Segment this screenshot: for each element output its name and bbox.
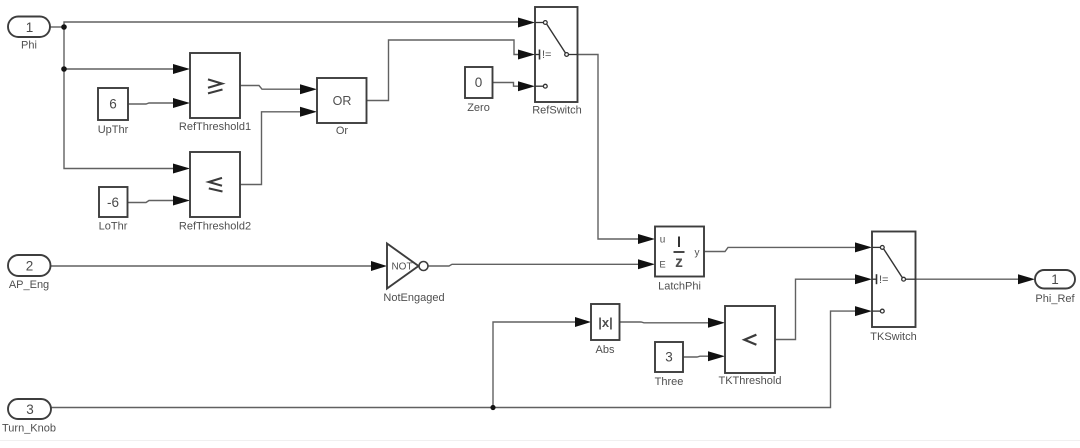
- wire Zero to RefSwitch in3: [493, 83, 523, 87]
- UpThr body: [98, 88, 128, 120]
- svg-text:RefSwitch: RefSwitch: [532, 105, 582, 117]
- svg-text:E: E: [659, 260, 665, 271]
- svg-text:OR: OR: [333, 94, 352, 108]
- RefSwitch pin 1 stub and contact: [535, 22, 543, 24]
- constant Zero value 0: [465, 67, 493, 114]
- svg-text:Turn_Knob: Turn_Knob: [2, 423, 56, 435]
- svg-text:u: u: [660, 235, 666, 246]
- inport 3 Turn_Knob: [2, 399, 56, 435]
- Three body: [655, 342, 683, 372]
- svg-text:TKThreshold: TKThreshold: [719, 375, 782, 387]
- TKSwitch output contact: [902, 277, 906, 281]
- logic NOT gate NotEngaged: [383, 244, 444, 305]
- outport 1 Phi_Ref: [1035, 270, 1076, 305]
- wire TKSwitch to Phi_Ref: [916, 278, 1021, 280]
- svg-text:TKSwitch: TKSwitch: [870, 331, 916, 343]
- TKThreshold body: [725, 306, 775, 373]
- canvas bottom edge: [0, 440, 1080, 441]
- svg-text:RefThreshold2: RefThreshold2: [179, 221, 251, 233]
- wire junction A up to RefSwitch in1: [64, 22, 527, 27]
- RefSwitch pin 2 threshold mark !=: [535, 54, 539, 56]
- wire Turn_Knob through junction C to TKSwitch in3: [51, 311, 857, 407]
- TKSwitch lever: [884, 249, 903, 278]
- NotEngaged bubble: [419, 262, 428, 271]
- wire Or to RefSwitch in2: [367, 40, 523, 101]
- svg-text:UpThr: UpThr: [98, 124, 129, 136]
- outport Phi_Ref body: [1035, 270, 1075, 289]
- inport Turn_Knob body: [8, 399, 51, 419]
- wire NotEngaged to LatchPhi E: [428, 264, 640, 266]
- svg-text:1: 1: [1051, 272, 1059, 287]
- svg-text:Phi_Ref: Phi_Ref: [1035, 293, 1075, 305]
- svg-text:3: 3: [665, 350, 673, 365]
- wire Abs to TKThreshold in1: [620, 321, 713, 324]
- svg-text:6: 6: [109, 97, 117, 112]
- svg-text:Phi: Phi: [21, 40, 37, 52]
- RefThreshold1 body: [190, 53, 240, 118]
- constant Three value 3: [655, 342, 684, 388]
- switch TKSwitch: [870, 232, 916, 344]
- RefSwitch lever: [547, 24, 566, 53]
- wire LatchPhi y to TKSwitch in1: [704, 247, 857, 251]
- wire LoThr to RefThreshold2 in2: [128, 201, 177, 203]
- svg-text:0: 0: [475, 75, 483, 90]
- svg-text:AP_Eng: AP_Eng: [9, 279, 49, 291]
- svg-text:!=: !=: [879, 274, 888, 286]
- wire Phi to junction A: [50, 26, 64, 28]
- svg-text:RefThreshold1: RefThreshold1: [179, 121, 251, 133]
- wire RefSwitch to LatchPhi u: [578, 55, 641, 240]
- Or body: [317, 78, 367, 123]
- svg-text:NotEngaged: NotEngaged: [383, 292, 444, 304]
- RefSwitch output contact: [565, 53, 569, 57]
- svg-text:NOT: NOT: [391, 262, 412, 273]
- node A junction dot: [61, 24, 67, 30]
- inport 1 Phi: [8, 17, 50, 52]
- svg-text:Abs: Abs: [596, 344, 615, 356]
- inport AP_Eng body: [8, 255, 51, 276]
- wire AP_Eng to NotEngaged: [51, 265, 373, 267]
- constant UpThr value 6: [98, 88, 129, 136]
- svg-text:LoThr: LoThr: [99, 221, 128, 233]
- wire junction A down through junction B to RefThreshold2 in1: [64, 27, 173, 169]
- svg-text:|x|: |x|: [598, 315, 613, 330]
- unit delay latch LatchPhi: [655, 227, 704, 293]
- relational operator TKThreshold (<): [719, 306, 782, 387]
- svg-text:z: z: [675, 254, 683, 271]
- wire junction C up to Abs in: [493, 322, 577, 408]
- svg-text:y: y: [695, 248, 700, 259]
- constant LoThr value -6: [99, 187, 128, 233]
- inport Phi body: [8, 17, 50, 38]
- Abs body: [591, 304, 620, 340]
- relational operator RefThreshold2 (<=): [179, 152, 251, 233]
- wire UpThr to RefThreshold1 in2: [128, 103, 176, 104]
- svg-text:2: 2: [26, 259, 34, 274]
- TKThreshold < icon: [744, 335, 756, 345]
- svg-text:!=: !=: [542, 49, 551, 61]
- RefSwitch body: [535, 7, 578, 102]
- RefThreshold2 body: [190, 152, 240, 217]
- RefThreshold2 <= icon: [209, 178, 222, 186]
- svg-text:Zero: Zero: [467, 102, 490, 114]
- wire RefThreshold2 to Or in2: [240, 112, 303, 185]
- TKSwitch pin 1 stub and contact: [872, 246, 880, 248]
- inport 2 AP_Eng: [8, 255, 51, 291]
- LatchPhi 1/z icon: [678, 237, 680, 248]
- wire TKThreshold to TKSwitch in2: [775, 279, 859, 339]
- TKSwitch body: [872, 232, 916, 328]
- TKSwitch pin 2 threshold mark !=: [872, 278, 876, 280]
- relational operator RefThreshold1 (>=): [179, 53, 251, 133]
- wire junction B to RefThreshold1 in1: [64, 68, 173, 70]
- logic OR gate Or: [317, 78, 367, 137]
- NotEngaged body: [387, 244, 419, 289]
- Zero body: [465, 67, 493, 98]
- svg-text:1: 1: [26, 20, 34, 35]
- wire RefThreshold1 to Or in1: [240, 86, 303, 90]
- svg-text:Three: Three: [655, 376, 684, 388]
- switch RefSwitch: [532, 7, 582, 117]
- RefSwitch pin 3 stub and contact: [535, 85, 543, 87]
- RefThreshold1 >= icon: [208, 79, 222, 87]
- node B junction dot: [61, 66, 67, 72]
- TKSwitch pin 3 stub and contact: [872, 310, 880, 312]
- svg-text:3: 3: [26, 402, 34, 417]
- svg-text:LatchPhi: LatchPhi: [658, 281, 701, 293]
- wire Three to TKThreshold in2: [683, 355, 712, 358]
- node C junction dot: [490, 405, 495, 410]
- svg-text:Or: Or: [336, 125, 349, 137]
- LoThr body: [99, 187, 128, 217]
- abs block Abs: [591, 304, 620, 356]
- LatchPhi body: [655, 227, 704, 277]
- svg-text:-6: -6: [107, 195, 119, 210]
